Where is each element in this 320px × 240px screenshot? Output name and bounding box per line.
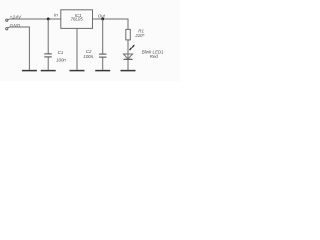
value Red <box>150 54 159 59</box>
junction node B (output cap tap) <box>101 18 104 21</box>
value 100n of C1 <box>56 57 66 62</box>
ground symbol under LED <box>121 70 136 72</box>
svg-text:100n: 100n <box>56 57 66 62</box>
capacitor C1 <box>44 54 52 57</box>
pin label In <box>54 13 58 18</box>
value 78L05 <box>71 17 84 22</box>
pin label Out <box>98 13 106 18</box>
ground symbol at GND input <box>22 70 37 72</box>
wire C2 bottom lead <box>102 57 104 70</box>
label Blink LED1 <box>142 50 164 55</box>
wire C1 top lead <box>47 19 49 54</box>
node GND label <box>10 23 21 28</box>
svg-text:78L05: 78L05 <box>71 17 84 22</box>
junction node A (input cap tap) <box>47 18 50 21</box>
value 100n of C2 <box>83 54 93 59</box>
terminal pad GND <box>6 27 10 30</box>
LED LED1 diode triangle <box>124 54 133 59</box>
ground symbol under IC <box>70 70 85 72</box>
wire LED bottom lead <box>127 59 129 70</box>
LED emission arrow 2 <box>132 45 134 48</box>
wire GND vertical drop <box>28 27 30 70</box>
wire +24V rail to IC input <box>9 18 61 20</box>
LED emission arrow 1 <box>130 47 132 50</box>
terminal pad +24V <box>6 19 10 21</box>
wire R1 top lead (corner from output rail) <box>127 19 129 30</box>
ground symbol under C1 <box>41 70 56 72</box>
wire output rail <box>93 18 129 20</box>
node +24V label <box>10 14 23 19</box>
svg-text:Red: Red <box>150 54 159 59</box>
wire C1 bottom lead <box>47 57 49 70</box>
svg-text:C1: C1 <box>58 50 64 55</box>
wire R1 to LED lead <box>127 40 129 59</box>
label IC1 <box>75 13 82 18</box>
wire GND horizontal <box>9 26 29 28</box>
resistor R1 <box>126 29 131 40</box>
label C2 <box>86 49 92 54</box>
svg-text:100n: 100n <box>83 54 93 59</box>
wire C2 top lead <box>102 19 104 54</box>
label R1 <box>138 29 144 34</box>
wire IC ground pin drop <box>76 28 78 70</box>
svg-text:220*: 220* <box>134 33 144 38</box>
value 220* of R1 <box>134 33 144 38</box>
IC U1: IC1 78L05 regulator body <box>61 10 93 29</box>
label C1 <box>58 50 64 55</box>
svg-text:Out: Out <box>98 13 106 18</box>
capacitor C2 <box>99 54 107 57</box>
LED cathode bar <box>124 58 133 60</box>
svg-text:In: In <box>54 13 58 18</box>
ground symbol under C2 <box>95 70 110 72</box>
